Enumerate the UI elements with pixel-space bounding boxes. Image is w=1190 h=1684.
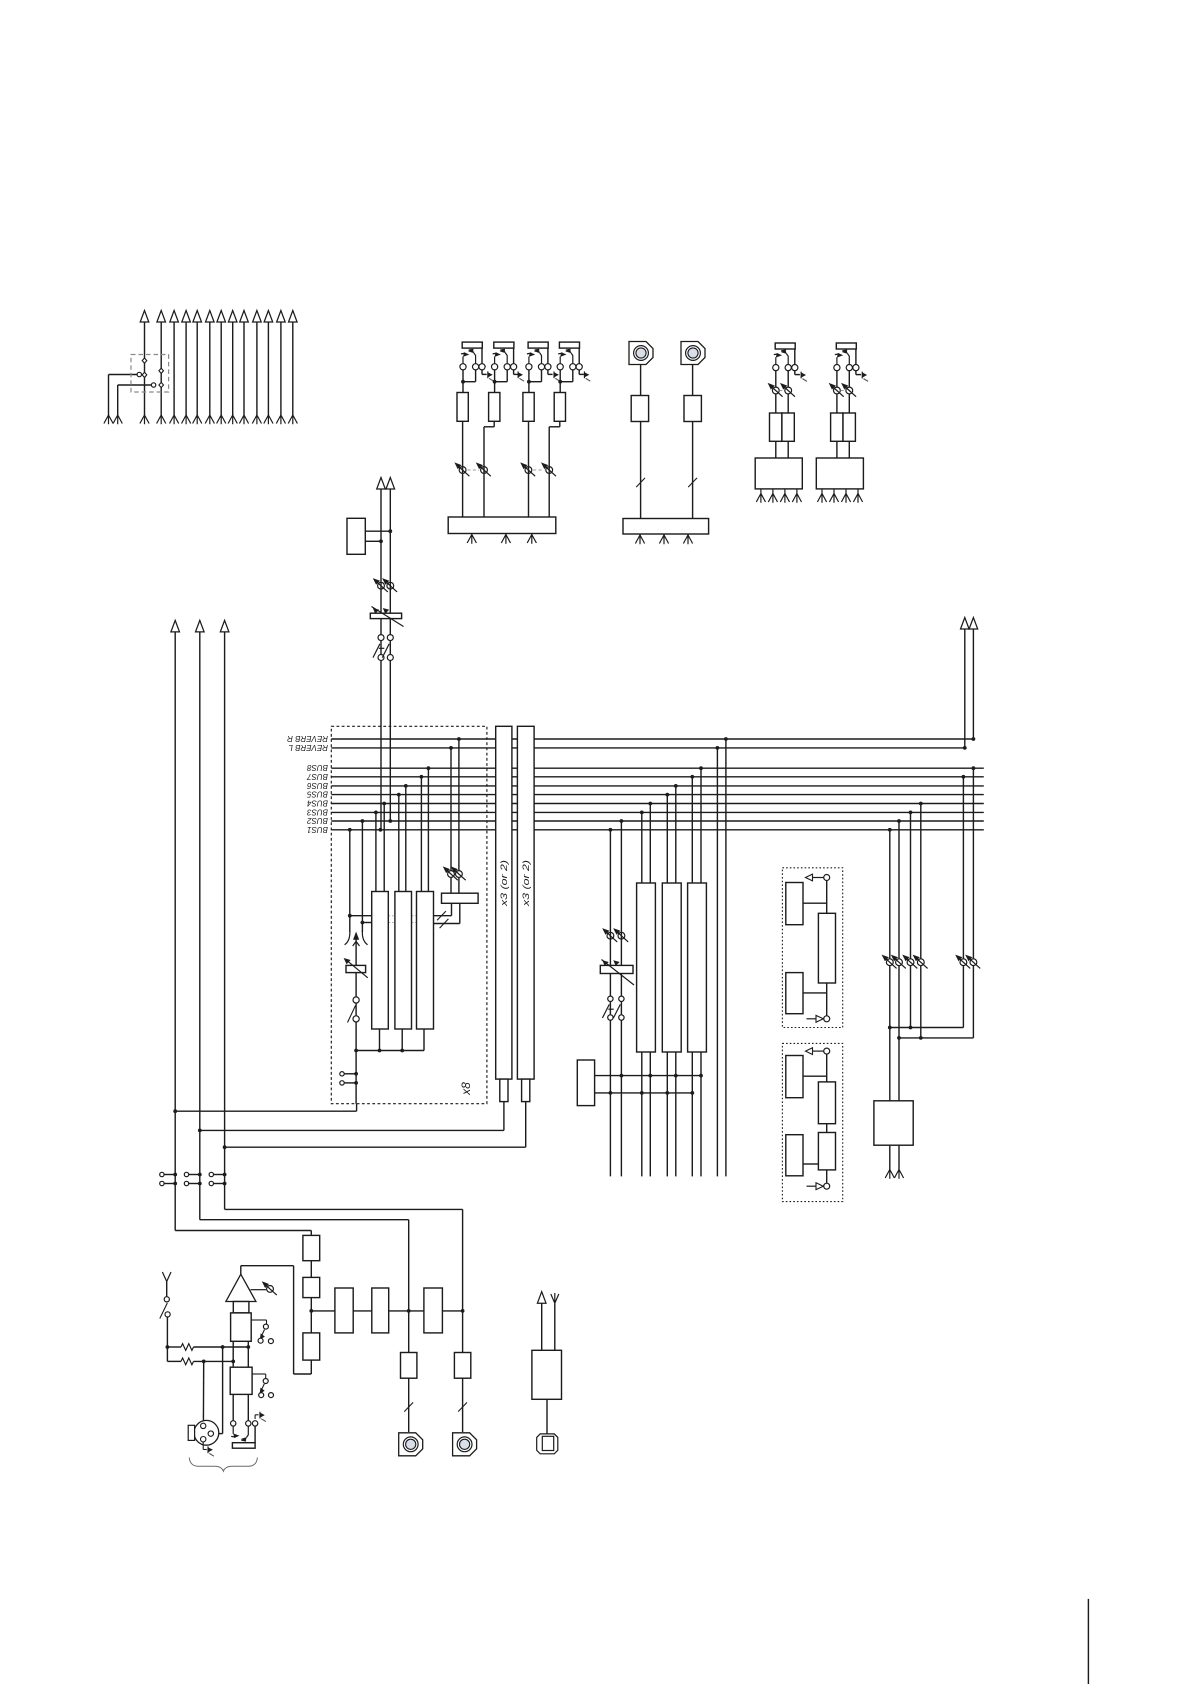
wire bbox=[166, 1317, 168, 1361]
wire bbox=[451, 903, 453, 915]
wire bbox=[398, 795, 400, 892]
wire bbox=[578, 348, 580, 364]
junction REVERB L bbox=[963, 746, 967, 750]
contact bbox=[209, 1181, 213, 1185]
channel on switch bbox=[353, 997, 359, 1003]
bus-width slash bbox=[636, 478, 645, 487]
tip contact bbox=[492, 364, 498, 370]
wire bbox=[220, 322, 222, 415]
wire to trim bbox=[251, 1289, 267, 1291]
effect loop box 1 bbox=[782, 868, 842, 1028]
junction bbox=[674, 1074, 678, 1078]
to-crossbar foot bbox=[182, 415, 191, 424]
wire bbox=[458, 878, 460, 894]
to-crossbar foot bbox=[140, 415, 149, 424]
lever bbox=[613, 1004, 620, 1018]
wire bbox=[232, 1341, 234, 1421]
foot bbox=[635, 535, 644, 544]
wire bbox=[528, 382, 530, 393]
wire bbox=[353, 1310, 372, 1312]
node arrow MAIN 3 bbox=[220, 620, 229, 632]
wire bbox=[760, 489, 762, 494]
tip contact bbox=[557, 364, 563, 370]
phones pot L bbox=[373, 578, 388, 592]
wire bbox=[972, 768, 974, 958]
bus line BUS1 bbox=[331, 829, 984, 831]
contact bbox=[160, 1181, 164, 1185]
chassis ground bbox=[584, 371, 590, 381]
level pot VR1 bbox=[454, 462, 469, 476]
wire main 1 bbox=[174, 632, 176, 1231]
wire bbox=[803, 1075, 827, 1077]
foot bbox=[853, 494, 862, 503]
rec level pot bbox=[891, 955, 906, 969]
stereo line input channel 2 jack bbox=[836, 343, 856, 349]
to-crossbar foot bbox=[276, 415, 285, 424]
wire bbox=[160, 322, 162, 415]
svg-text:BUS7: BUS7 bbox=[307, 772, 328, 781]
wire bbox=[408, 1378, 410, 1432]
wire bbox=[692, 365, 694, 396]
bus tap junction bbox=[449, 746, 453, 750]
wire bbox=[209, 322, 211, 415]
gang dash bbox=[379, 647, 384, 649]
wire bbox=[450, 748, 452, 871]
lever bbox=[348, 1006, 356, 1023]
bus line BUS6 bbox=[331, 785, 984, 787]
foot bbox=[841, 494, 850, 503]
phone output jack bbox=[399, 1433, 423, 1456]
wire strip out to main bbox=[175, 1110, 356, 1112]
bus tap junction bbox=[665, 793, 669, 797]
ring contact bbox=[473, 364, 479, 370]
junction bbox=[198, 1173, 202, 1177]
wire bbox=[559, 382, 561, 393]
effect loop box 2 bbox=[782, 1043, 842, 1201]
level pot R bbox=[841, 383, 856, 397]
aux block 2 bbox=[372, 1288, 389, 1333]
jack lever ring bbox=[565, 349, 573, 364]
svg-text:BUS4: BUS4 bbox=[307, 799, 328, 808]
insert stub bbox=[213, 1183, 224, 1185]
bus line BUS3 bbox=[331, 811, 984, 813]
level pot VR3 bbox=[520, 462, 535, 476]
wire bbox=[554, 1303, 556, 1350]
junction bbox=[461, 380, 465, 384]
rec level pot bbox=[955, 955, 970, 969]
wire bbox=[578, 370, 580, 375]
switch contact bbox=[142, 372, 147, 377]
gang line bbox=[602, 960, 635, 986]
junction bbox=[527, 380, 531, 384]
wire bbox=[796, 489, 798, 494]
wire main 2 bbox=[199, 632, 201, 1220]
lever bbox=[373, 644, 380, 658]
wire bbox=[462, 1378, 464, 1432]
wire bbox=[200, 1219, 409, 1221]
wire bbox=[344, 1073, 356, 1075]
node arrow A7 bbox=[217, 311, 226, 323]
head amp U3 bbox=[523, 393, 534, 422]
wire master L bbox=[200, 1129, 504, 1131]
wire bbox=[836, 370, 838, 387]
svg-text:REVERB R: REVERB R bbox=[287, 734, 328, 743]
wire bbox=[826, 1124, 828, 1133]
amp pair bbox=[831, 413, 843, 441]
node arrow REC R bbox=[969, 618, 978, 630]
input gain trim bbox=[346, 965, 366, 972]
bus tap junction bbox=[909, 811, 913, 815]
foot bbox=[829, 494, 838, 503]
junction bbox=[198, 1129, 202, 1133]
junction bbox=[690, 1091, 694, 1095]
group fader G1 bbox=[637, 883, 656, 1052]
aux block 1 bbox=[335, 1288, 353, 1333]
phone jack J1 bbox=[462, 342, 482, 348]
wire bbox=[427, 768, 429, 891]
wire bbox=[772, 489, 774, 494]
wire bbox=[666, 1052, 668, 1176]
wire stub left 2 bbox=[118, 384, 152, 386]
rec level pot bbox=[913, 955, 928, 969]
wire bbox=[725, 739, 727, 1176]
jack lever ring bbox=[534, 349, 542, 364]
to-crossbar foot bbox=[157, 415, 166, 424]
reverb send pot bbox=[451, 866, 466, 880]
foot bbox=[792, 494, 801, 503]
foot bbox=[756, 494, 765, 503]
svg-text:BUS3: BUS3 bbox=[307, 807, 328, 816]
wire bbox=[349, 830, 351, 932]
bus tap junction bbox=[690, 775, 694, 779]
junction bbox=[309, 1309, 313, 1313]
wire bbox=[572, 370, 574, 382]
wire bbox=[310, 1360, 312, 1374]
junction REVERB R bbox=[972, 737, 976, 741]
chassis ground bbox=[518, 371, 524, 381]
bus tap junction bbox=[374, 811, 378, 815]
bus tap junction bbox=[674, 784, 678, 788]
bus tap junction bbox=[620, 819, 624, 823]
foot bbox=[113, 415, 122, 424]
jack lever tip bbox=[774, 353, 782, 365]
junction bbox=[223, 1173, 227, 1177]
contact bbox=[773, 365, 779, 371]
head amp B bbox=[230, 1367, 252, 1394]
rec level pot bbox=[882, 955, 897, 969]
wire bbox=[541, 1303, 543, 1350]
wire bbox=[833, 489, 835, 494]
continuation dots bbox=[389, 915, 395, 917]
wire bbox=[442, 1310, 462, 1312]
wire bbox=[848, 370, 850, 387]
wire bbox=[202, 1442, 204, 1450]
wire bbox=[787, 441, 789, 458]
2TR summing bar bbox=[623, 519, 709, 535]
pad switch bbox=[251, 1319, 266, 1321]
node arrow MAIN 2 bbox=[196, 620, 205, 632]
gang link bbox=[841, 390, 846, 392]
gang link bbox=[468, 469, 480, 471]
jack lever tip bbox=[527, 352, 535, 364]
wire bbox=[254, 1426, 256, 1443]
svg-text:x3 (or 2): x3 (or 2) bbox=[499, 860, 510, 907]
to-crossbar foot bbox=[170, 415, 179, 424]
head amp U1 bbox=[457, 393, 468, 422]
head amp A bbox=[231, 1313, 252, 1341]
svg-text:REVERB L: REVERB L bbox=[288, 743, 328, 752]
bus tap junction bbox=[640, 811, 644, 815]
junction bbox=[223, 1145, 227, 1149]
bus tap junction bbox=[972, 766, 976, 770]
bus tap junction bbox=[648, 802, 652, 806]
bus line BUS7 bbox=[331, 776, 984, 778]
wire bbox=[166, 1282, 168, 1297]
svg-text:x3 (or 2): x3 (or 2) bbox=[521, 860, 532, 907]
output amp block bbox=[401, 1353, 417, 1379]
level pot R bbox=[780, 383, 795, 397]
wire bbox=[365, 530, 390, 532]
wire bbox=[836, 441, 838, 458]
wire bbox=[503, 1102, 505, 1131]
svg-text:x8: x8 bbox=[459, 1082, 473, 1096]
master bus amp bar 1 bbox=[496, 726, 512, 1079]
wire bbox=[243, 322, 245, 415]
wire bbox=[311, 1310, 335, 1312]
group fader G3 bbox=[688, 883, 707, 1052]
gain trim pot bbox=[262, 1281, 277, 1295]
wire bbox=[826, 1054, 828, 1082]
junction bbox=[388, 529, 392, 533]
wire bbox=[225, 1208, 463, 1210]
wire bbox=[494, 370, 496, 382]
master bus amp bar 2 bbox=[517, 726, 534, 1079]
gang link bbox=[533, 469, 544, 471]
bus tap junction bbox=[699, 766, 703, 770]
wire bbox=[292, 322, 294, 415]
wire bbox=[420, 777, 422, 892]
wire select B bbox=[595, 1092, 693, 1094]
bus line BUS5 bbox=[331, 794, 984, 796]
phone jack J4 bbox=[559, 342, 579, 348]
wire bbox=[559, 370, 561, 382]
foot bbox=[659, 535, 668, 544]
gang dash bbox=[608, 1008, 613, 1010]
bus line REVERB R bbox=[331, 738, 973, 740]
wire bbox=[641, 1052, 643, 1176]
brace bbox=[189, 1458, 257, 1472]
wire bbox=[898, 821, 900, 959]
summing block ST bus bar bbox=[448, 517, 556, 534]
contact bbox=[184, 1181, 188, 1185]
wire bbox=[513, 348, 515, 364]
wire bbox=[775, 394, 777, 413]
wire bbox=[280, 322, 282, 415]
wire bbox=[196, 322, 198, 415]
wire bbox=[787, 370, 789, 387]
phones amp box bbox=[347, 518, 365, 554]
loop amp bbox=[818, 1133, 835, 1170]
wire bbox=[889, 1145, 891, 1169]
wire bbox=[506, 370, 508, 382]
wire bbox=[855, 370, 857, 374]
loop block bbox=[786, 1056, 803, 1098]
rec level pot bbox=[965, 955, 980, 969]
bus tap junction bbox=[348, 828, 352, 832]
wire bbox=[964, 629, 966, 748]
wire bbox=[383, 804, 385, 892]
node arrow A1 bbox=[140, 311, 149, 323]
contact bbox=[231, 1421, 236, 1426]
wire bbox=[375, 812, 377, 891]
dual slide level bbox=[600, 965, 633, 973]
wire bbox=[423, 1029, 425, 1051]
pan pot bbox=[345, 931, 368, 946]
switch contact bbox=[142, 358, 147, 363]
head amp U4 bbox=[554, 393, 565, 422]
wire bbox=[401, 1029, 403, 1051]
bus tap junction bbox=[962, 775, 966, 779]
gang link bbox=[779, 390, 784, 392]
channel block bbox=[755, 458, 802, 489]
jack lever ring bbox=[842, 350, 850, 365]
wire bbox=[408, 1220, 410, 1353]
wire bbox=[640, 422, 642, 519]
pad block bbox=[233, 1302, 249, 1313]
junction bbox=[223, 1182, 227, 1186]
wire bbox=[361, 821, 363, 932]
bus tap junction bbox=[897, 819, 901, 823]
loop block bbox=[786, 973, 803, 1014]
lever bbox=[602, 1004, 609, 1018]
foot bbox=[768, 494, 777, 503]
to-crossbar foot bbox=[217, 415, 226, 424]
wire bbox=[459, 903, 461, 923]
wire bbox=[365, 540, 381, 542]
wire monitor R down to BUS2 bbox=[389, 489, 391, 821]
wire bbox=[972, 629, 974, 739]
wire master R bbox=[225, 1146, 526, 1148]
wire to XLR pin3 bbox=[222, 1347, 224, 1434]
amp block bbox=[684, 396, 701, 422]
bus-width slash bbox=[688, 478, 697, 487]
wire bbox=[379, 1029, 381, 1051]
bus-width slash bbox=[440, 919, 449, 928]
wire bbox=[794, 349, 796, 365]
wire bbox=[794, 370, 796, 374]
svg-text:BUS8: BUS8 bbox=[307, 763, 328, 772]
jack bar bbox=[232, 1443, 255, 1449]
insert stub bbox=[164, 1174, 175, 1176]
wire channel input line bbox=[355, 937, 357, 1104]
wire bbox=[525, 1102, 527, 1148]
wire bbox=[547, 370, 549, 375]
wire bbox=[609, 830, 611, 1177]
dual switch bbox=[378, 635, 384, 641]
wire bbox=[898, 1145, 900, 1169]
ring contact bbox=[570, 364, 576, 370]
wire bbox=[821, 489, 823, 494]
node arrow A2 bbox=[157, 311, 166, 323]
contact bbox=[340, 1072, 344, 1076]
wire bbox=[962, 966, 964, 1028]
arrowhead bbox=[353, 932, 359, 940]
chassis ground bbox=[488, 371, 494, 381]
wire bbox=[641, 812, 643, 883]
loop amp bbox=[818, 913, 835, 983]
contact bbox=[160, 1172, 164, 1176]
wire bbox=[450, 878, 452, 894]
foot bbox=[527, 535, 536, 544]
node arrow REC L bbox=[961, 618, 970, 630]
junction on BUS1 bbox=[379, 828, 383, 832]
wire bbox=[826, 881, 828, 914]
junction bbox=[461, 1309, 465, 1313]
node arrow A11 bbox=[264, 311, 273, 323]
wire bbox=[700, 768, 702, 883]
ring contact bbox=[538, 364, 544, 370]
sleeve contact bbox=[479, 364, 485, 370]
wire bbox=[144, 322, 146, 415]
contact bbox=[853, 365, 859, 371]
jack lever ring bbox=[468, 349, 476, 364]
bus-width slash bbox=[404, 1402, 413, 1411]
aux block 3 bbox=[424, 1288, 443, 1333]
to-crossbar foot bbox=[228, 415, 237, 424]
sleeve contact bbox=[576, 364, 582, 370]
group fader G2 bbox=[662, 883, 681, 1052]
jack lever tip bbox=[558, 352, 566, 364]
wire bbox=[462, 382, 464, 393]
wire bbox=[920, 966, 922, 1038]
node arrow FS out bbox=[537, 1292, 546, 1304]
svg-text:BUS1: BUS1 bbox=[307, 825, 328, 834]
channel block bbox=[816, 458, 863, 489]
wire bbox=[700, 1052, 702, 1176]
bus tap junction bbox=[609, 828, 613, 832]
reverb send pot bbox=[443, 866, 458, 880]
bus-width slash bbox=[458, 1402, 467, 1411]
rec out block bbox=[874, 1101, 913, 1145]
wire bbox=[857, 489, 859, 494]
wire bbox=[775, 370, 777, 387]
return arrow bbox=[807, 1183, 824, 1190]
strip dotted box bbox=[331, 726, 487, 1103]
node arrow A6 bbox=[206, 311, 215, 323]
monitor pot R bbox=[613, 928, 628, 942]
node arrow MAIN 1 bbox=[171, 620, 180, 632]
wire bbox=[620, 821, 622, 1176]
jack lever tip bbox=[493, 352, 501, 364]
bus tap junction bbox=[457, 737, 461, 741]
lever bbox=[160, 1303, 168, 1319]
wire bbox=[405, 786, 407, 892]
sleeve contact bbox=[510, 364, 516, 370]
wire bbox=[716, 748, 718, 1177]
wire bbox=[845, 489, 847, 494]
chassis ground bbox=[208, 1446, 214, 1456]
wire bbox=[494, 382, 496, 393]
wire bbox=[962, 777, 964, 959]
tip contact bbox=[526, 364, 532, 370]
wire bbox=[462, 421, 464, 517]
foot bbox=[683, 535, 692, 544]
insert stub bbox=[189, 1174, 200, 1176]
mic amp triangle bbox=[226, 1274, 256, 1301]
to-crossbar foot bbox=[264, 415, 273, 424]
wire bbox=[848, 441, 850, 458]
foot bbox=[501, 535, 510, 544]
